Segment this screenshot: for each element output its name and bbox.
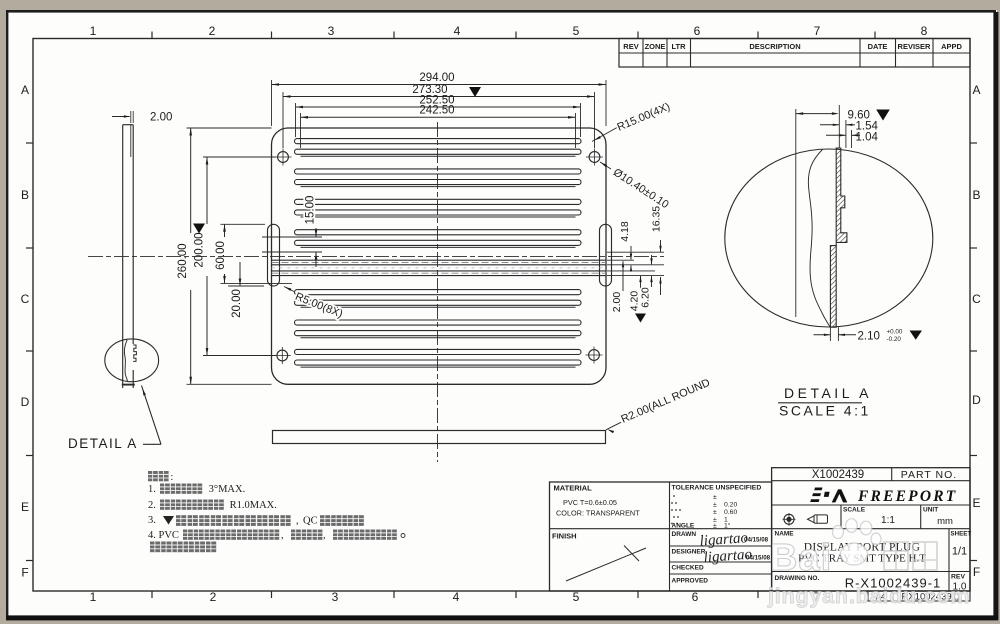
dimension 260.00 <box>190 128 192 233</box>
plate corner hole bottom-left <box>277 350 288 361</box>
svg-text:2: 2 <box>210 590 217 604</box>
svg-text:UNIT: UNIT <box>923 507 938 514</box>
vent slot pair 1 upper <box>295 139 582 144</box>
svg-text:D: D <box>21 395 30 409</box>
zone ticks right <box>970 142 977 144</box>
svg-text:CHECKED: CHECKED <box>672 565 704 572</box>
svg-text:2.00: 2.00 <box>150 112 172 124</box>
svg-text:8: 8 <box>921 24 928 38</box>
svg-text:1.04: 1.04 <box>856 131 879 143</box>
svg-text:,: , <box>323 530 326 541</box>
svg-text:3: 3 <box>332 590 339 604</box>
dimension 4.18 <box>630 246 632 260</box>
svg-text:REV: REV <box>623 42 638 51</box>
vent slot pair 6 ledge line <box>301 306 576 308</box>
dimension 9.60 <box>796 113 836 115</box>
svg-text:DETAIL A: DETAIL A <box>68 436 138 451</box>
svg-text:3°MAX.: 3°MAX. <box>206 484 245 495</box>
dimension 294.00 <box>272 84 607 86</box>
svg-text:6.20: 6.20 <box>640 287 652 308</box>
svg-text:1:1: 1:1 <box>881 515 895 526</box>
dimension 20.00 <box>239 262 241 286</box>
svg-text:LTR: LTR <box>671 42 686 51</box>
svg-text:4: 4 <box>454 24 461 38</box>
svg-text:SHEET: SHEET <box>951 531 972 538</box>
svg-text:D: D <box>972 393 981 407</box>
svg-text:04/15/08: 04/15/08 <box>746 555 771 562</box>
svg-text:COLOR: TRANSPARENT: COLOR: TRANSPARENT <box>556 509 640 518</box>
svg-text:F: F <box>973 565 980 579</box>
svg-text:mm: mm <box>937 516 953 527</box>
vent slot pair 8 ledge line <box>301 366 576 368</box>
vent slot pair 7 lower <box>295 331 582 336</box>
vertical centerline <box>437 122 439 462</box>
projection symbol cone <box>808 516 815 523</box>
vent slot pair 1 lower <box>295 149 582 154</box>
svg-text:7: 7 <box>814 24 821 38</box>
right edge latch tab <box>600 224 612 286</box>
svg-text:SCALE 4:1: SCALE 4:1 <box>779 403 871 419</box>
extension lines above detail <box>838 105 840 148</box>
svg-text:jingyan.baidu.com: jingyan.baidu.com <box>767 584 970 608</box>
revision table <box>619 39 970 68</box>
svg-text:20.00: 20.00 <box>231 289 243 318</box>
svg-text:5: 5 <box>573 590 580 604</box>
svg-text:C: C <box>21 292 30 306</box>
svg-text:X1002439: X1002439 <box>812 469 864 481</box>
plate corner hole bottom-right <box>589 350 600 361</box>
section break wavy line <box>124 340 127 381</box>
side view bottom cap <box>122 384 135 386</box>
svg-text:SCALE: SCALE <box>843 507 866 514</box>
svg-text:±: ± <box>713 502 717 509</box>
svg-text:1: 1 <box>90 590 97 604</box>
svg-text:ZONE: ZONE <box>645 42 666 51</box>
vent slot pair 3 lower <box>295 210 582 215</box>
svg-text:6: 6 <box>692 590 699 604</box>
svg-text:4.18: 4.18 <box>619 221 631 242</box>
horizontal centerline <box>88 255 664 257</box>
svg-text:FINISH: FINISH <box>552 532 577 541</box>
vent slot pair 3 ledge line <box>301 216 576 218</box>
svg-text:200.00: 200.00 <box>194 232 206 267</box>
signature rows <box>670 545 772 547</box>
svg-text:C: C <box>972 292 981 306</box>
svg-text:TOLERANCE UNSPECIFIED: TOLERANCE UNSPECIFIED <box>672 485 762 492</box>
page border bottom <box>6 615 998 620</box>
side view inner line <box>130 125 132 157</box>
svg-text:PVC T=0.6±0.05: PVC T=0.6±0.05 <box>563 498 617 507</box>
dimension 2.10 with tolerance <box>829 327 831 341</box>
side view clip zigzag <box>133 345 136 361</box>
svg-text:1: 1 <box>90 24 97 38</box>
svg-text:3: 3 <box>328 24 335 38</box>
dimension 6.20 <box>651 255 653 264</box>
svg-text:REV: REV <box>951 574 965 581</box>
svg-text:04/15/08: 04/15/08 <box>744 537 769 544</box>
side view right edge <box>132 125 134 344</box>
svg-text:±: ± <box>713 523 717 530</box>
svg-text:1.: 1. <box>148 484 156 495</box>
vent slot pair 8 lower <box>295 360 582 365</box>
vent slot pair 2 upper <box>295 169 582 174</box>
dimension 252.50 <box>296 106 581 108</box>
dimension 2.00 thickness <box>112 116 130 118</box>
main plate outline <box>272 128 607 384</box>
svg-text:2.: 2. <box>148 500 156 511</box>
svg-text:2.10: 2.10 <box>858 331 880 343</box>
watermark baidu logo <box>770 519 937 579</box>
vent slot pair 2 lower <box>295 180 582 185</box>
svg-text:4. PVC: 4. PVC <box>148 530 179 541</box>
svg-text:6: 6 <box>694 24 701 38</box>
radius label R5.00(8X) <box>284 287 294 292</box>
svg-text:0.20: 0.20 <box>724 502 737 509</box>
page border right <box>993 12 998 620</box>
svg-text:A: A <box>21 83 29 97</box>
svg-text:,: , <box>296 516 299 527</box>
dimension 2.00 right <box>622 261 624 291</box>
vent slot pair 7 upper <box>295 320 582 325</box>
svg-text:APPROVED: APPROVED <box>672 578 709 585</box>
dimension 200.00 <box>206 157 208 224</box>
svg-text:APPD: APPD <box>941 42 962 51</box>
radius label R2.00 ALL ROUND <box>606 422 621 430</box>
svg-text:1°: 1° <box>724 522 731 530</box>
svg-text:260.00: 260.00 <box>177 243 189 278</box>
svg-text:60.00: 60.00 <box>215 241 227 270</box>
page border top <box>6 10 996 13</box>
detail A boundary circle <box>725 149 933 327</box>
diameter label 10.40 <box>600 162 611 169</box>
vent slot pair 2 ledge line <box>301 186 576 188</box>
svg-text:,: , <box>281 530 284 541</box>
projection symbol target <box>784 514 794 524</box>
svg-text:REVISER: REVISER <box>898 42 932 51</box>
svg-text:4: 4 <box>453 590 460 604</box>
paper size strip <box>868 591 970 601</box>
svg-text:294.00: 294.00 <box>419 72 454 84</box>
extension line left of detail <box>795 109 797 317</box>
svg-text:242.50: 242.50 <box>419 105 454 117</box>
cover strip side view <box>273 431 606 444</box>
svg-text:+0.00: +0.00 <box>887 328 903 335</box>
svg-text:±: ± <box>713 494 717 501</box>
vent slot pair 4 ledge line <box>301 246 576 248</box>
svg-text:QC: QC <box>303 516 318 527</box>
svg-text:2.00: 2.00 <box>611 292 623 313</box>
left edge latch tab <box>268 224 280 286</box>
vent slot pair 6 lower <box>295 300 582 305</box>
center slot row (section) lines <box>272 259 607 261</box>
vent slot pair 3 upper <box>295 199 582 204</box>
dimension 16.35 <box>660 240 662 252</box>
svg-text:B: B <box>21 188 29 202</box>
svg-text:MATERIAL: MATERIAL <box>554 484 593 493</box>
critical mark for 200.00 <box>193 224 205 234</box>
svg-text:A: A <box>972 83 980 97</box>
freeport logo mark <box>814 488 822 491</box>
vent slot pair 6 upper <box>295 290 582 295</box>
vent slot pair 7 ledge line <box>301 337 576 339</box>
side view top cap <box>123 124 134 126</box>
svg-text:Bai: Bai <box>770 537 832 579</box>
dimension 1.04 <box>826 134 846 136</box>
page border left <box>6 10 8 618</box>
svg-text:-0.20: -0.20 <box>887 336 902 343</box>
section break wavy line detail <box>808 150 830 328</box>
zone ticks top <box>151 32 153 39</box>
svg-text:±: ± <box>713 509 717 516</box>
dimension 60.00 <box>224 224 226 237</box>
detail balloon circle <box>105 339 159 382</box>
svg-text:DATE: DATE <box>868 42 888 51</box>
svg-text:16.35: 16.35 <box>651 206 663 232</box>
svg-text:E: E <box>21 500 29 514</box>
svg-text:DESCRIPTION: DESCRIPTION <box>749 42 800 51</box>
note 5 <box>150 542 216 553</box>
svg-text:B: B <box>972 188 980 202</box>
svg-text:15.00: 15.00 <box>305 196 317 225</box>
dimension 242.50 <box>301 116 576 118</box>
svg-text:DETAIL A: DETAIL A <box>784 385 872 401</box>
svg-text:3.: 3. <box>148 515 156 526</box>
dimension 1.54 <box>820 124 839 126</box>
svg-text:0.60: 0.60 <box>724 509 737 516</box>
plate corner hole top-left <box>278 152 289 163</box>
svg-text:F: F <box>21 566 28 580</box>
vent slot pair 4 lower <box>295 240 582 245</box>
critical mark for 4.20 <box>635 314 646 323</box>
svg-text:DRAWN: DRAWN <box>672 531 697 538</box>
zone ticks bottom <box>151 591 153 598</box>
title block right outline <box>772 468 970 591</box>
section wall profile <box>830 148 847 327</box>
svg-text:2: 2 <box>209 24 216 38</box>
svg-text:FREEPORT: FREEPORT <box>857 488 957 505</box>
side view left edge <box>122 125 124 388</box>
svg-text:R1.0MAX.: R1.0MAX. <box>227 500 277 511</box>
dimension 4.20 <box>640 276 642 289</box>
vent slot pair 1 ledge line <box>301 155 576 157</box>
svg-text:E: E <box>972 496 980 510</box>
zone ticks left <box>26 142 33 144</box>
svg-text:DESIGNER: DESIGNER <box>672 549 706 556</box>
svg-text:PART NO.: PART NO. <box>901 469 957 481</box>
notes header <box>148 471 169 481</box>
dimension 15.00 <box>315 228 317 237</box>
vent slot pair 4 upper <box>295 230 582 235</box>
svg-text:1/1: 1/1 <box>952 546 967 558</box>
radius label R15.00(4X) <box>592 128 617 142</box>
svg-text::: : <box>171 472 174 483</box>
extension lines right of plate <box>607 251 664 253</box>
title block left outline <box>550 482 772 591</box>
vent slot pair 8 upper <box>295 349 582 354</box>
plate corner hole top-right <box>589 152 600 163</box>
svg-text:5: 5 <box>573 24 580 38</box>
dimension 273.30 <box>283 96 595 98</box>
svg-text:ANGLE: ANGLE <box>672 523 695 530</box>
